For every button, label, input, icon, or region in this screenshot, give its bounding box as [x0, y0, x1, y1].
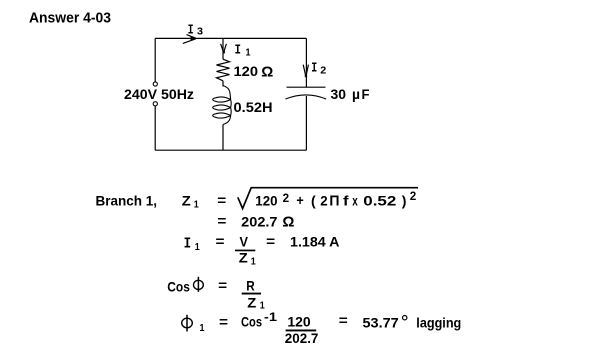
equation line3 I1 [184, 236, 200, 253]
svg-text:I: I [188, 22, 194, 38]
svg-text:+: + [296, 192, 303, 208]
svg-text:=: = [216, 233, 225, 249]
svg-text:=: = [217, 212, 226, 228]
svg-text:53.77: 53.77 [363, 314, 399, 330]
equation line2 equals 202.7 ohm [217, 212, 294, 230]
arrow I1 [221, 44, 227, 54]
resistor value 120 ohm [234, 63, 274, 81]
title Answer 4-03 [29, 11, 111, 27]
svg-text:202.7: 202.7 [285, 330, 319, 346]
svg-text:Ω: Ω [261, 64, 273, 81]
svg-text:=: = [266, 233, 275, 249]
equation line1 120 squared [255, 193, 289, 209]
voltage source V1 terminal bottom [153, 102, 157, 106]
svg-text:): ) [402, 193, 407, 209]
equation line5 phi 1 [182, 315, 205, 334]
svg-text:Cos: Cos [167, 278, 190, 294]
svg-text:V: V [240, 233, 249, 249]
svg-text:0.52: 0.52 [363, 193, 396, 209]
wire right upper [305, 38, 307, 87]
arrow I3 [183, 35, 197, 44]
svg-text:Branch 1,: Branch 1, [96, 192, 158, 208]
label I1 [235, 42, 251, 58]
svg-text:1: 1 [260, 300, 265, 312]
equation line4 fraction R over Z1 [242, 277, 265, 311]
capacitor C 30uF top plate [287, 86, 326, 88]
svg-text:Answer 4-03: Answer 4-03 [29, 11, 111, 27]
wire middle branch upper [222, 38, 224, 59]
svg-text:f: f [343, 193, 349, 209]
svg-text:=: = [339, 312, 348, 328]
equation line1 Z1 [182, 192, 199, 210]
svg-text:I: I [235, 42, 242, 58]
svg-text:2: 2 [410, 191, 417, 203]
svg-text:lagging: lagging [416, 314, 461, 330]
svg-text:µ: µ [352, 86, 360, 102]
svg-text:30: 30 [331, 86, 347, 102]
wire left upper [154, 38, 156, 81]
equation line5 fraction 120 over 202.7 [285, 314, 319, 346]
svg-text:F: F [362, 86, 370, 102]
svg-text:I: I [184, 236, 192, 253]
svg-text:(: ( [311, 193, 316, 209]
arrow I2 [303, 65, 308, 78]
svg-text:=: = [219, 313, 228, 329]
wire top [155, 37, 306, 39]
equation line3 fraction V over Z1 [235, 233, 256, 267]
wire middle branch lower [222, 125, 224, 151]
svg-text:2: 2 [320, 65, 326, 77]
equation line3 equals2 and result 1.184 A [266, 233, 339, 249]
capacitor value 30 uF [331, 86, 370, 102]
svg-text:Cos: Cos [241, 313, 262, 329]
svg-text:2: 2 [283, 193, 290, 205]
label I2 [311, 61, 326, 77]
equation line1 plus [296, 192, 303, 208]
svg-text:I: I [311, 61, 317, 77]
radical sign sqrt [238, 188, 418, 209]
voltage source V1 terminal top [153, 82, 157, 86]
svg-text:Z: Z [247, 294, 256, 310]
svg-text:=: = [217, 192, 226, 208]
inductor value 0.52H [234, 99, 273, 115]
svg-text:0.52H: 0.52H [234, 99, 273, 115]
wire between resistor and inductor [222, 81, 224, 87]
equation line1 open paren 2 pi f x 0.52 close paren squared [311, 191, 416, 210]
wire bottom [155, 149, 306, 151]
equation line4 equals [218, 277, 227, 293]
inductor L 0.52H coil [213, 86, 232, 125]
equation line5 Cos inverse [241, 312, 278, 329]
svg-text:Z: Z [239, 249, 248, 265]
voltage source V1 label 240V 50Hz [124, 86, 194, 102]
svg-text:Ω: Ω [282, 214, 294, 231]
equation line5 equals2 result 53.77 degree lagging [339, 312, 462, 330]
svg-text:1.184 A: 1.184 A [290, 234, 340, 250]
svg-text:240V 50Hz: 240V 50Hz [124, 86, 194, 102]
equation line1 Branch 1 label [96, 192, 158, 208]
resistor R 120ohm zigzag [217, 59, 230, 81]
svg-text:Z: Z [182, 192, 191, 208]
equation line5 equals1 [219, 313, 228, 329]
svg-text:1: 1 [246, 46, 251, 58]
svg-text:x: x [352, 193, 358, 209]
label I3 [188, 22, 204, 38]
svg-text:=: = [218, 277, 227, 293]
svg-text:R: R [246, 277, 255, 293]
svg-text:-1: -1 [264, 312, 278, 324]
wire right lower [305, 96, 307, 150]
svg-text:1: 1 [251, 256, 256, 268]
svg-text:202.7: 202.7 [241, 213, 278, 229]
svg-text:120: 120 [255, 193, 277, 209]
svg-text:3: 3 [197, 26, 203, 38]
equation line4 Cos phi [167, 277, 203, 295]
svg-text:1: 1 [195, 241, 200, 253]
svg-text:1: 1 [200, 322, 205, 334]
capacitor C 30uF bottom plate curved [286, 95, 327, 99]
svg-text:120: 120 [234, 63, 259, 79]
wire left lower [154, 106, 156, 150]
svg-text:2: 2 [320, 193, 328, 209]
svg-text:120: 120 [287, 314, 311, 330]
svg-text:Π: Π [329, 193, 339, 210]
svg-text:1: 1 [194, 199, 199, 211]
equation line3 equals1 [216, 233, 225, 249]
equation line1 equals [217, 192, 226, 208]
